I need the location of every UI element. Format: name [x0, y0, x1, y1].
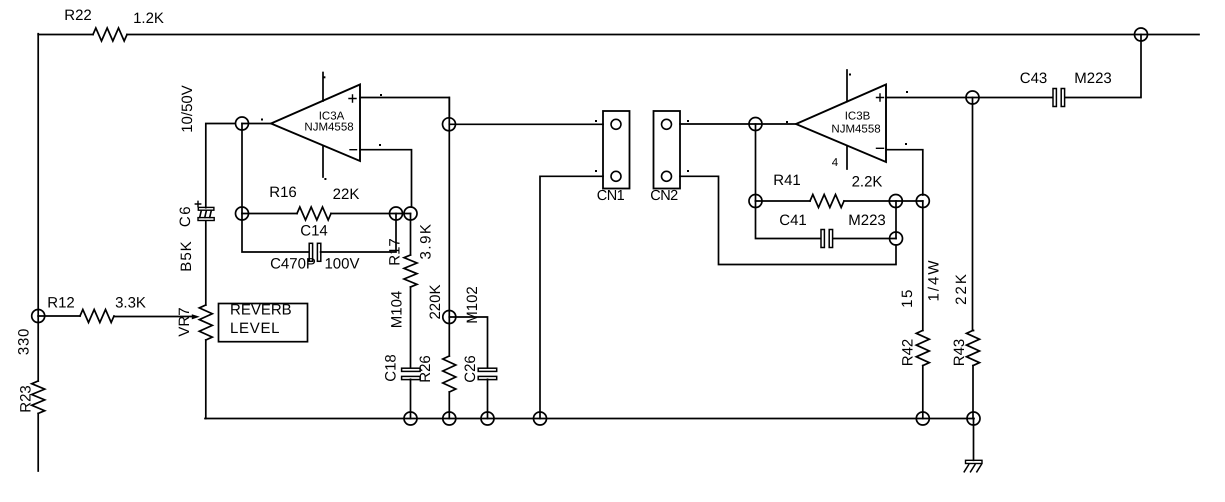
svg-text:M223: M223 [1074, 70, 1112, 87]
pin circle CN1-1 [611, 119, 621, 129]
wire R43 to rail [972, 366, 974, 419]
svg-text:C41: C41 [779, 212, 807, 229]
pin dot IC3A minus [379, 144, 381, 146]
svg-text:IC3B: IC3B [845, 111, 871, 123]
svg-text:VR7: VR7 [176, 307, 193, 336]
wire to R17 [410, 214, 412, 256]
resistor R26 [443, 356, 456, 392]
capacitor C18 [402, 368, 421, 371]
svg-text:R12: R12 [47, 295, 75, 312]
wire VR7 bottom to ground rail [205, 340, 207, 419]
node R26 / C26 branch [443, 311, 456, 324]
pin circle CN2-2 [662, 171, 672, 181]
node C14 junction [390, 207, 403, 220]
wire IC3A minus input [360, 150, 412, 207]
svg-text:M104: M104 [389, 291, 406, 329]
node IC3A output [236, 117, 249, 130]
plus input mark IC3B [877, 94, 884, 101]
svg-text:C18: C18 [383, 354, 400, 382]
capacitor C41 [821, 230, 824, 248]
pin dot CN1-1 [595, 120, 597, 122]
pin circle CN2-1 [662, 119, 672, 129]
svg-text:1/4W: 1/4W [926, 258, 943, 301]
minus input mark IC3B [877, 147, 884, 149]
wire IC3A plus input [360, 98, 449, 118]
resistor R22 [93, 28, 127, 41]
svg-text:LEVEL: LEVEL [230, 320, 280, 337]
wire C14 right up [321, 214, 396, 253]
wire branch to C26 [449, 317, 487, 369]
plus input mark IC3A [349, 95, 356, 102]
resistor R17 [404, 255, 417, 287]
wire R12 to VR7 wiper [114, 316, 195, 318]
svg-text:CN2: CN2 [650, 188, 678, 204]
capacitor C43 [1053, 89, 1056, 107]
node rail C26 [481, 412, 494, 425]
svg-text:B5K: B5K [178, 240, 195, 271]
wiper arrowhead VR7 [192, 314, 200, 319]
wire R41 right [844, 200, 923, 202]
capacitor C14 [309, 243, 312, 261]
wire R16 right [331, 213, 411, 215]
pin dot IC3A bottom [324, 178, 326, 180]
resistor R41 [810, 195, 844, 208]
node R41 left [749, 195, 762, 208]
svg-text:R16: R16 [269, 184, 297, 201]
resistor R42 [916, 330, 929, 365]
svg-text:C14: C14 [300, 223, 328, 240]
wire R42 to rail [922, 366, 924, 419]
wire left vertical input [37, 34, 39, 316]
wire bottom ground rail [205, 418, 974, 420]
wire to R42 [922, 201, 924, 331]
resistor R23 [32, 381, 45, 413]
wire C43 node down to R43 [973, 98, 974, 331]
ground chassis symbol [964, 460, 982, 472]
wire to R23 [37, 316, 39, 381]
wire C43 to top rail [1065, 35, 1141, 98]
op-amp U IC3B body [796, 85, 886, 163]
node R12/R23 junction [32, 310, 45, 323]
wire C6 up and to IC3A output node [206, 124, 235, 208]
pin dot IC3B minus [905, 143, 907, 145]
svg-text:22K: 22K [953, 272, 970, 305]
svg-text:4: 4 [832, 157, 839, 169]
power pin top IC3A [322, 73, 324, 102]
wire node to CN1 pin 1 [449, 123, 603, 125]
svg-text:2.2K: 2.2K [852, 174, 883, 191]
connector CN2 body [654, 111, 681, 189]
wire to R26 [448, 317, 450, 356]
svg-text:M102: M102 [464, 286, 481, 324]
svg-text:R23: R23 [18, 385, 35, 413]
svg-text:CN1: CN1 [597, 188, 625, 204]
wire top rail [127, 34, 1199, 36]
svg-text:C43: C43 [1020, 70, 1048, 87]
wire R17 to C18 [410, 287, 412, 369]
svg-text:1.2K: 1.2K [133, 10, 164, 27]
node R16 left [236, 207, 249, 220]
pin dot CN2-1 [687, 120, 689, 122]
capacitor C6 [198, 207, 214, 220]
node rail CN1 return [534, 412, 547, 425]
wire C18 to rail [410, 379, 412, 418]
svg-text:R22: R22 [64, 7, 92, 24]
node rail R43 [967, 412, 980, 425]
wire top rail left of R22 [38, 34, 93, 36]
node rail R26 [443, 412, 456, 425]
svg-text:NJM4558: NJM4558 [304, 122, 353, 134]
pin dot CN1-2 [595, 170, 597, 172]
wire VR7 top to C6 [205, 220, 207, 305]
pin dot IC3A plus [380, 94, 382, 96]
svg-text:R41: R41 [773, 172, 801, 189]
wire from node to R12 [38, 315, 80, 317]
pin dot IC3A out [261, 119, 263, 121]
resistor R12 [80, 310, 114, 323]
pin dot IC3A top [323, 76, 325, 78]
node top rail junction [1135, 28, 1148, 41]
pin circle CN1-2 [611, 171, 621, 181]
minus input mark IC3A [350, 149, 357, 151]
wire CN2 pin 1 to IC3B output [680, 123, 796, 125]
wire C14 left drop [242, 214, 310, 253]
node plus-input / CN1 branch [443, 118, 456, 131]
pin dot IC3B out [786, 121, 788, 123]
wire R41 left [756, 200, 811, 202]
wire IC3B plus input [886, 97, 1052, 99]
plus polarity mark C6 [195, 201, 200, 206]
wire IC3A output to node [242, 123, 271, 125]
node minus / R42 junction [916, 195, 929, 208]
svg-text:C6: C6 [177, 205, 194, 227]
wire output node down to R16 [241, 124, 243, 214]
svg-text:C26: C26 [462, 355, 479, 383]
node rail C18 [404, 412, 417, 425]
pin dot CN2-2 [687, 170, 689, 172]
node rail R42 [916, 412, 929, 425]
svg-text:100V: 100V [324, 256, 359, 273]
svg-text:10/50V: 10/50V [179, 85, 196, 133]
wire R26 to rail [448, 392, 450, 419]
wire IC3B minus input [886, 150, 923, 195]
svg-text:C470P: C470P [270, 256, 316, 273]
wire C41 right [833, 238, 896, 240]
node R17 / minus junction [404, 207, 417, 220]
wire plus column down [448, 98, 450, 318]
svg-text:REVERB: REVERB [230, 302, 292, 319]
op-amp U IC3A body [271, 85, 360, 162]
pin dot IC3B plus [906, 91, 908, 93]
svg-text:22K: 22K [333, 186, 360, 203]
pin dot IC3B top [849, 74, 851, 76]
wire R16 left [242, 213, 297, 215]
connector CN1 body [603, 111, 630, 189]
wire to ground [973, 419, 975, 461]
power pin top IC3B [846, 70, 848, 102]
wire CN1 pin 2 return [540, 176, 603, 418]
svg-text:R43: R43 [951, 339, 968, 367]
wire CN2 pin 2 return loop [680, 176, 896, 264]
capacitor C26 [478, 368, 497, 371]
label box REVERB LEVEL [219, 304, 308, 342]
power pin bottom IC3A [322, 146, 324, 177]
node C41 right [890, 232, 903, 245]
node R41 right [889, 195, 902, 208]
svg-text:R42: R42 [900, 339, 917, 367]
wire C41 node up to R41 [895, 201, 897, 239]
potentiometer VR7 [199, 305, 212, 340]
wire C26 to rail [487, 379, 489, 418]
resistor R16 [297, 207, 331, 220]
wire output node down to R41 [755, 124, 757, 201]
svg-text:NJM4558: NJM4558 [831, 124, 880, 136]
wire C41 left drop [756, 201, 821, 239]
power pin bottom IC3B [846, 147, 848, 170]
svg-text:3.3K: 3.3K [115, 295, 146, 312]
svg-text:3.9K: 3.9K [418, 223, 435, 260]
svg-text:15: 15 [899, 288, 916, 308]
svg-text:M223: M223 [848, 212, 886, 229]
node C43 branch [966, 91, 979, 104]
node IC3B output [749, 118, 762, 131]
resistor R43 [967, 330, 980, 365]
svg-text:220K: 220K [427, 284, 444, 319]
wire bottom-left open end [37, 413, 39, 471]
svg-text:330: 330 [16, 328, 33, 355]
svg-text:R17: R17 [387, 238, 404, 266]
